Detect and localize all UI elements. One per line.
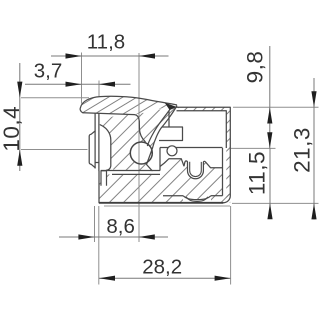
svg-text:10,4: 10,4 xyxy=(0,106,24,152)
svg-text:11,5: 11,5 xyxy=(244,151,269,195)
svg-text:21,3: 21,3 xyxy=(290,127,315,173)
svg-text:28,2: 28,2 xyxy=(142,255,182,278)
svg-text:3,7: 3,7 xyxy=(34,59,63,82)
svg-text:8,6: 8,6 xyxy=(106,215,135,238)
svg-text:11,8: 11,8 xyxy=(87,30,125,53)
svg-text:9,8: 9,8 xyxy=(243,51,268,84)
